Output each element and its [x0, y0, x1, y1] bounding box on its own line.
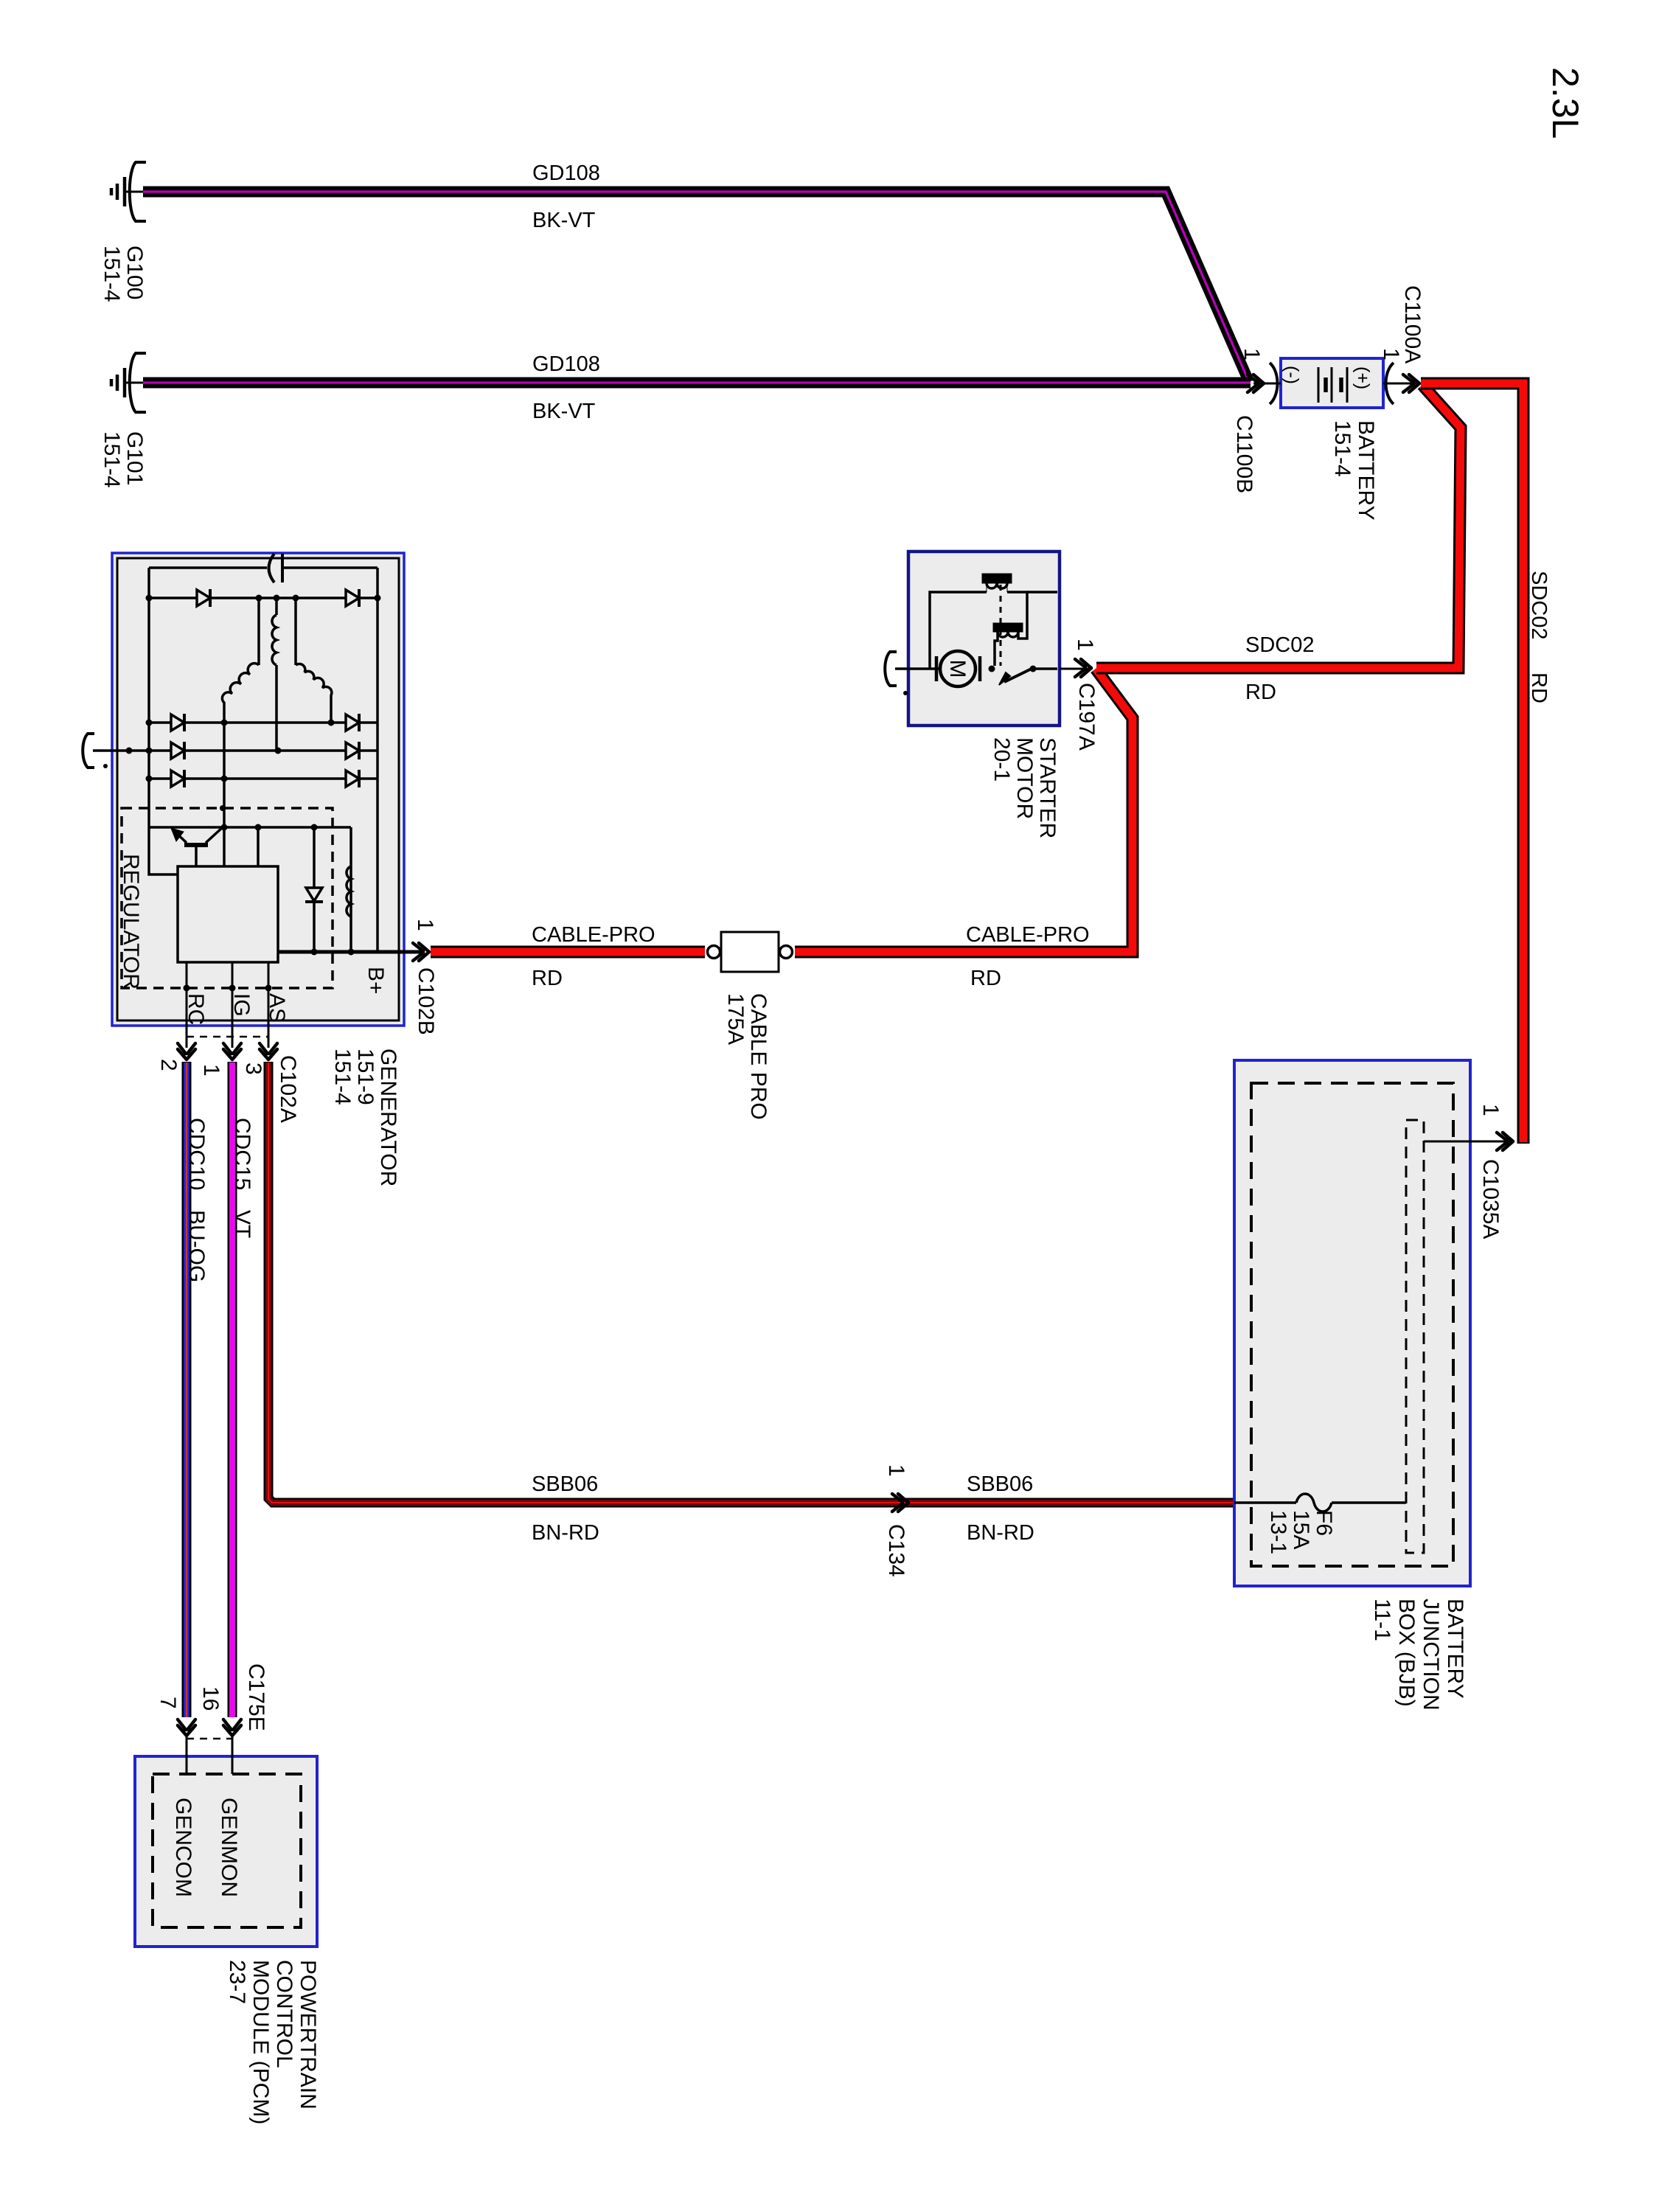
svg-text:1: 1 [884, 1464, 908, 1477]
svg-text:SDC02: SDC02 [1527, 571, 1551, 640]
solenoid dashed link [1000, 585, 1002, 666]
wire ground to motor [895, 667, 941, 670]
starter ground [885, 652, 897, 686]
svg-text:1: 1 [1239, 348, 1264, 361]
svg-text:1: 1 [199, 1064, 223, 1077]
connector C197A [1060, 668, 1091, 670]
svg-text:CABLE-PRO: CABLE-PRO [966, 923, 1090, 947]
diode row 2 [146, 714, 378, 731]
wire CDC10 BU-OG (generator RC to PCM pin7) [182, 1062, 192, 1717]
svg-text:C175E: C175E [244, 1663, 268, 1731]
svg-text:151-4: 151-4 [100, 246, 124, 302]
svg-text:MOTOR: MOTOR [1012, 737, 1037, 819]
right bus [376, 568, 379, 952]
C102A dashed line [187, 1036, 268, 1038]
svg-text:151-4: 151-4 [330, 1048, 355, 1105]
svg-text:23-7: 23-7 [225, 1960, 249, 2004]
wire C1035A lead [1424, 1141, 1512, 1143]
svg-text:CDC10: CDC10 [184, 1118, 209, 1190]
svg-text:(+): (+) [1352, 366, 1373, 389]
motor M circle with brushes [936, 651, 980, 686]
connector C1100B arrow and bracket [1248, 363, 1281, 404]
period dot [903, 691, 908, 695]
svg-text:BATTERY: BATTERY [1443, 1599, 1467, 1699]
svg-text:C1100A: C1100A [1400, 285, 1425, 364]
wire SDC02 RD battery elbow to starter motor [1096, 385, 1461, 668]
regulator top wire [149, 827, 351, 952]
svg-text:BN-RD: BN-RD [967, 1521, 1034, 1545]
solenoid coil 2 [993, 623, 1027, 666]
svg-text:16: 16 [198, 1686, 223, 1711]
wire GD108 BK-VT (G100 to battery, with diagonal) [143, 192, 1249, 382]
connector C1035A arrow [1497, 1133, 1513, 1150]
connector C102B arrow [413, 943, 429, 961]
connector C175E arrow pin7 [178, 1719, 195, 1736]
svg-text:SDC02: SDC02 [1245, 633, 1315, 657]
svg-text:CABLE PRO: CABLE PRO [746, 993, 771, 1120]
starter motor box [908, 552, 1060, 726]
switch [989, 666, 1058, 686]
svg-text:STARTER: STARTER [1035, 737, 1060, 838]
connector C134 arrow [892, 1494, 908, 1512]
solenoid coil 1 [930, 574, 1057, 669]
fuse F6 [1234, 1494, 1406, 1512]
capacitor plates [269, 554, 275, 582]
ground G101 [111, 353, 146, 412]
svg-text:MODULE (PCM): MODULE (PCM) [248, 1960, 273, 2124]
svg-text:3: 3 [241, 1062, 265, 1075]
transistor Q [171, 827, 223, 866]
svg-text:GENCOM: GENCOM [171, 1798, 195, 1897]
svg-text:BATTERY: BATTERY [1354, 420, 1378, 521]
svg-text:C1100B: C1100B [1232, 415, 1256, 493]
battery cell plates [1318, 367, 1347, 403]
BJB inner dashed box [1251, 1083, 1453, 1566]
svg-text:BN-RD: BN-RD [532, 1521, 599, 1545]
phase A vertical into regulator [223, 723, 226, 866]
wire GD108 BK-VT (G101 to battery) [143, 378, 1251, 389]
stator winding A [222, 664, 259, 723]
svg-text:F6: F6 [1312, 1510, 1336, 1536]
battery junction box BJB [1234, 1060, 1470, 1586]
svg-text:CABLE-PRO: CABLE-PRO [532, 923, 655, 947]
regulator coil [347, 866, 351, 917]
left bus [149, 568, 178, 874]
svg-text:RD: RD [1245, 681, 1276, 704]
svg-text:BU-OG: BU-OG [184, 1210, 209, 1282]
svg-text:RD: RD [1527, 672, 1551, 703]
svg-text:GENMON: GENMON [217, 1798, 241, 1897]
ground row (row 3) [83, 734, 378, 768]
connector C102A arrow pin3 [260, 1043, 277, 1060]
svg-text:151-9: 151-9 [353, 1048, 378, 1105]
generator box [112, 553, 404, 1026]
svg-text:175A: 175A [723, 993, 748, 1045]
battery box [1281, 358, 1383, 408]
svg-text:2: 2 [156, 1059, 181, 1071]
svg-text:BK-VT: BK-VT [532, 209, 596, 232]
svg-text:GD108: GD108 [532, 352, 600, 376]
regulator block [178, 866, 278, 962]
svg-text:(-): (-) [1281, 366, 1302, 384]
svg-text:IG: IG [229, 993, 254, 1017]
svg-text:15A: 15A [1289, 1510, 1313, 1549]
svg-text:RD: RD [970, 967, 1001, 990]
svg-text:1: 1 [1073, 639, 1097, 651]
phase stubs [257, 598, 260, 665]
svg-text:VT: VT [230, 1210, 254, 1238]
svg-text:C134: C134 [884, 1524, 908, 1577]
svg-text:1: 1 [413, 919, 437, 931]
wire pin16 lead [232, 1736, 234, 1774]
stator winding C [296, 664, 332, 723]
connector C175E arrow pin16 [223, 1719, 241, 1736]
svg-text:20-1: 20-1 [990, 737, 1014, 782]
svg-text:BK-VT: BK-VT [532, 400, 596, 423]
regulator diode [305, 888, 323, 902]
svg-text:C102B: C102B [414, 967, 438, 1035]
diode row 4 [146, 770, 378, 811]
svg-text:REGULATOR: REGULATOR [119, 854, 143, 990]
wire CABLE-PRO RD left segment (generator B+ to cable pro) [431, 946, 705, 959]
svg-text:1: 1 [1478, 1104, 1503, 1116]
connector C1100A bracket and arrow [1383, 363, 1419, 404]
svg-text:RD: RD [532, 967, 563, 990]
svg-text:CDC15: CDC15 [230, 1118, 254, 1190]
connector C102A arrow pin1 [223, 1043, 241, 1060]
regulator dashed box [122, 808, 333, 988]
PCM inner dashed box [153, 1774, 301, 1927]
svg-text:7: 7 [156, 1697, 180, 1709]
diode row 1 [146, 589, 381, 607]
wire pin7 lead [186, 1736, 188, 1774]
svg-text:11-1: 11-1 [1370, 1599, 1394, 1641]
PCM box U2 [135, 1756, 317, 1947]
ground G100 [111, 162, 146, 221]
svg-text:M: M [945, 660, 970, 678]
svg-text:151-4: 151-4 [1330, 420, 1354, 477]
svg-text:G100: G100 [122, 246, 147, 299]
wire SDC02 RD battery to BJB (outer) [1421, 383, 1523, 1144]
svg-text:SBB06: SBB06 [532, 1472, 598, 1496]
svg-text:C197A: C197A [1074, 683, 1099, 751]
inner top wire with capacitor [149, 554, 378, 952]
svg-text:JUNCTION: JUNCTION [1419, 1599, 1443, 1711]
svg-text:G101: G101 [122, 431, 147, 485]
B+ output line [278, 950, 423, 954]
rotor mid coil [275, 598, 278, 751]
svg-text:AS: AS [265, 993, 289, 1023]
svg-text:BOX (BJB): BOX (BJB) [1394, 1599, 1419, 1707]
svg-text:B+: B+ [364, 967, 388, 995]
svg-text:2.3L: 2.3L [1545, 67, 1586, 139]
svg-text:RC: RC [184, 993, 208, 1025]
svg-text:C102A: C102A [276, 1055, 300, 1123]
svg-text:C1035A: C1035A [1478, 1159, 1503, 1239]
wire SBB06 BN-RD (generator AS to BJB fuse) [268, 1062, 1234, 1503]
svg-text:CONTROL: CONTROL [272, 1960, 296, 2068]
regulator block pins [187, 962, 268, 1048]
svg-text:1: 1 [1379, 348, 1403, 361]
connector C175E dashed tie [187, 1738, 232, 1740]
svg-text:POWERTRAIN: POWERTRAIN [296, 1960, 320, 2110]
wire CABLE-PRO RD right segment (starter junction down to cable pro) [795, 669, 1133, 952]
BJB bus bar dashed rect [1406, 1120, 1424, 1553]
svg-text:151-4: 151-4 [100, 431, 124, 488]
svg-text:GD108: GD108 [532, 161, 600, 185]
svg-text:GENERATOR: GENERATOR [376, 1048, 400, 1186]
svg-text:SBB06: SBB06 [967, 1472, 1033, 1496]
wire CDC15 VT (generator IG to PCM pin16) [228, 1062, 237, 1717]
svg-text:13-1: 13-1 [1266, 1510, 1290, 1554]
connector C102A arrow pin2 [178, 1043, 195, 1060]
